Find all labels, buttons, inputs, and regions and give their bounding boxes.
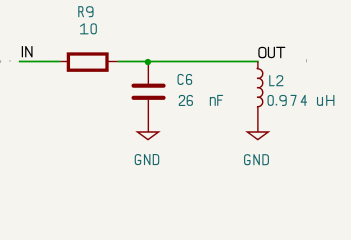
resistor R9 body [68, 54, 107, 70]
inductor L2 coil [257, 69, 263, 107]
label IN [21, 47, 23, 57]
resistor R9 left lead [60, 61, 68, 63]
ground symbol right [247, 132, 268, 140]
capacitor C6 bottom plate [134, 96, 164, 100]
label C6 [178, 74, 183, 84]
value 10 [81, 24, 88, 34]
capacitor C6 top pin [147, 62, 149, 84]
capacitor C6 bottom pin [147, 100, 149, 132]
wire IN to resistor [19, 61, 60, 63]
label IN anchor marker [9, 61, 11, 62]
value 0.974 uH [268, 95, 273, 105]
label OUT [259, 47, 266, 57]
ground symbol left [137, 132, 158, 140]
label L2 [270, 76, 274, 86]
label R9 [79, 7, 84, 17]
inductor L2 top pin [256, 62, 259, 69]
edge tick (left border mark) [0, 60, 1, 63]
junction node [145, 59, 151, 65]
inductor L2 bottom pin [256, 107, 259, 132]
resistor R9 right lead [107, 61, 118, 63]
label OUT anchor marker [306, 59, 307, 62]
GND label left [135, 155, 140, 165]
wire resistor to OUT corner [118, 61, 259, 63]
GND label right [245, 155, 250, 165]
capacitor C6 top plate [134, 84, 164, 88]
value 26 nF [179, 95, 185, 105]
